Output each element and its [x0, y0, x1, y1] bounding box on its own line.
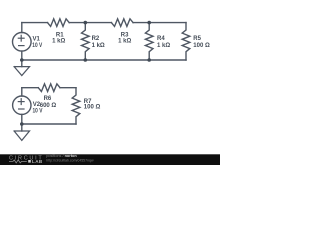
wire bottom rail [22, 59, 186, 61]
svg-text:600 Ω: 600 Ω [40, 103, 57, 109]
junction node V1 bottom [20, 58, 24, 62]
label R6 [40, 96, 57, 109]
voltage source V2 [21, 88, 23, 96]
label R7 [84, 99, 101, 111]
svg-text:R2: R2 [92, 36, 100, 42]
svg-text:1 kΩ: 1 kΩ [118, 39, 131, 45]
resistor R3 [111, 19, 133, 27]
footer logo square [28, 160, 31, 163]
ground GND1 [21, 60, 23, 67]
label V2 [33, 102, 43, 115]
svg-text:R5: R5 [193, 36, 201, 42]
junction node R2 bottom [84, 58, 88, 62]
label V1 [32, 37, 42, 50]
footer logo resistor zigzag [9, 160, 27, 163]
svg-text:1 kΩ: 1 kΩ [52, 39, 65, 45]
wire bottom circuit bottom rail [22, 123, 76, 125]
svg-text:10 V: 10 V [33, 109, 43, 115]
footer bar [0, 154, 220, 165]
wire bottom circuit top rail [22, 87, 39, 89]
label R4 [157, 36, 170, 49]
junction node R4 top [147, 21, 151, 25]
svg-text:100 Ω: 100 Ω [84, 104, 101, 110]
wire R6 to R7 corner [60, 87, 76, 89]
resistor R5 [182, 23, 190, 60]
label R5 [193, 36, 210, 49]
svg-text:V1: V1 [33, 37, 41, 43]
resistor R7 [72, 88, 80, 124]
svg-text:1 kΩ: 1 kΩ [157, 43, 170, 49]
svg-text:R1: R1 [56, 32, 64, 38]
resistor R4 [145, 23, 153, 60]
V1 minus sign [19, 45, 24, 47]
V1 plus sign [18, 35, 24, 41]
resistor R2 [82, 23, 90, 60]
svg-text:R6: R6 [44, 96, 52, 102]
V2 minus sign [19, 108, 24, 110]
svg-text:R4: R4 [157, 36, 165, 42]
svg-text:100 Ω: 100 Ω [193, 43, 210, 49]
label R2 [92, 36, 105, 49]
svg-text:10 V: 10 V [32, 43, 42, 49]
wire top rail segment R3 to R5 [133, 22, 186, 24]
resistor R1 [48, 19, 70, 27]
svg-text:1 kΩ: 1 kΩ [92, 43, 105, 49]
voltage source V1 [21, 23, 23, 33]
resistor R6 [38, 84, 60, 92]
svg-text:LAB: LAB [32, 159, 43, 164]
V2 plus sign [18, 99, 24, 105]
junction node V2 bottom [20, 122, 24, 126]
label R1 [52, 32, 65, 44]
label R3 [118, 32, 131, 44]
ground GND2 [21, 124, 23, 131]
wire top rail segment R1 to R3 [69, 22, 111, 24]
svg-text:R3: R3 [121, 32, 129, 38]
wire top rail segment V1 to R1 [22, 22, 48, 24]
junction node R2 top [84, 21, 88, 25]
svg-text:http://circuitlab.com/c4557nqw: http://circuitlab.com/c4557nqw [46, 158, 93, 162]
junction node R4 bottom [147, 58, 151, 62]
